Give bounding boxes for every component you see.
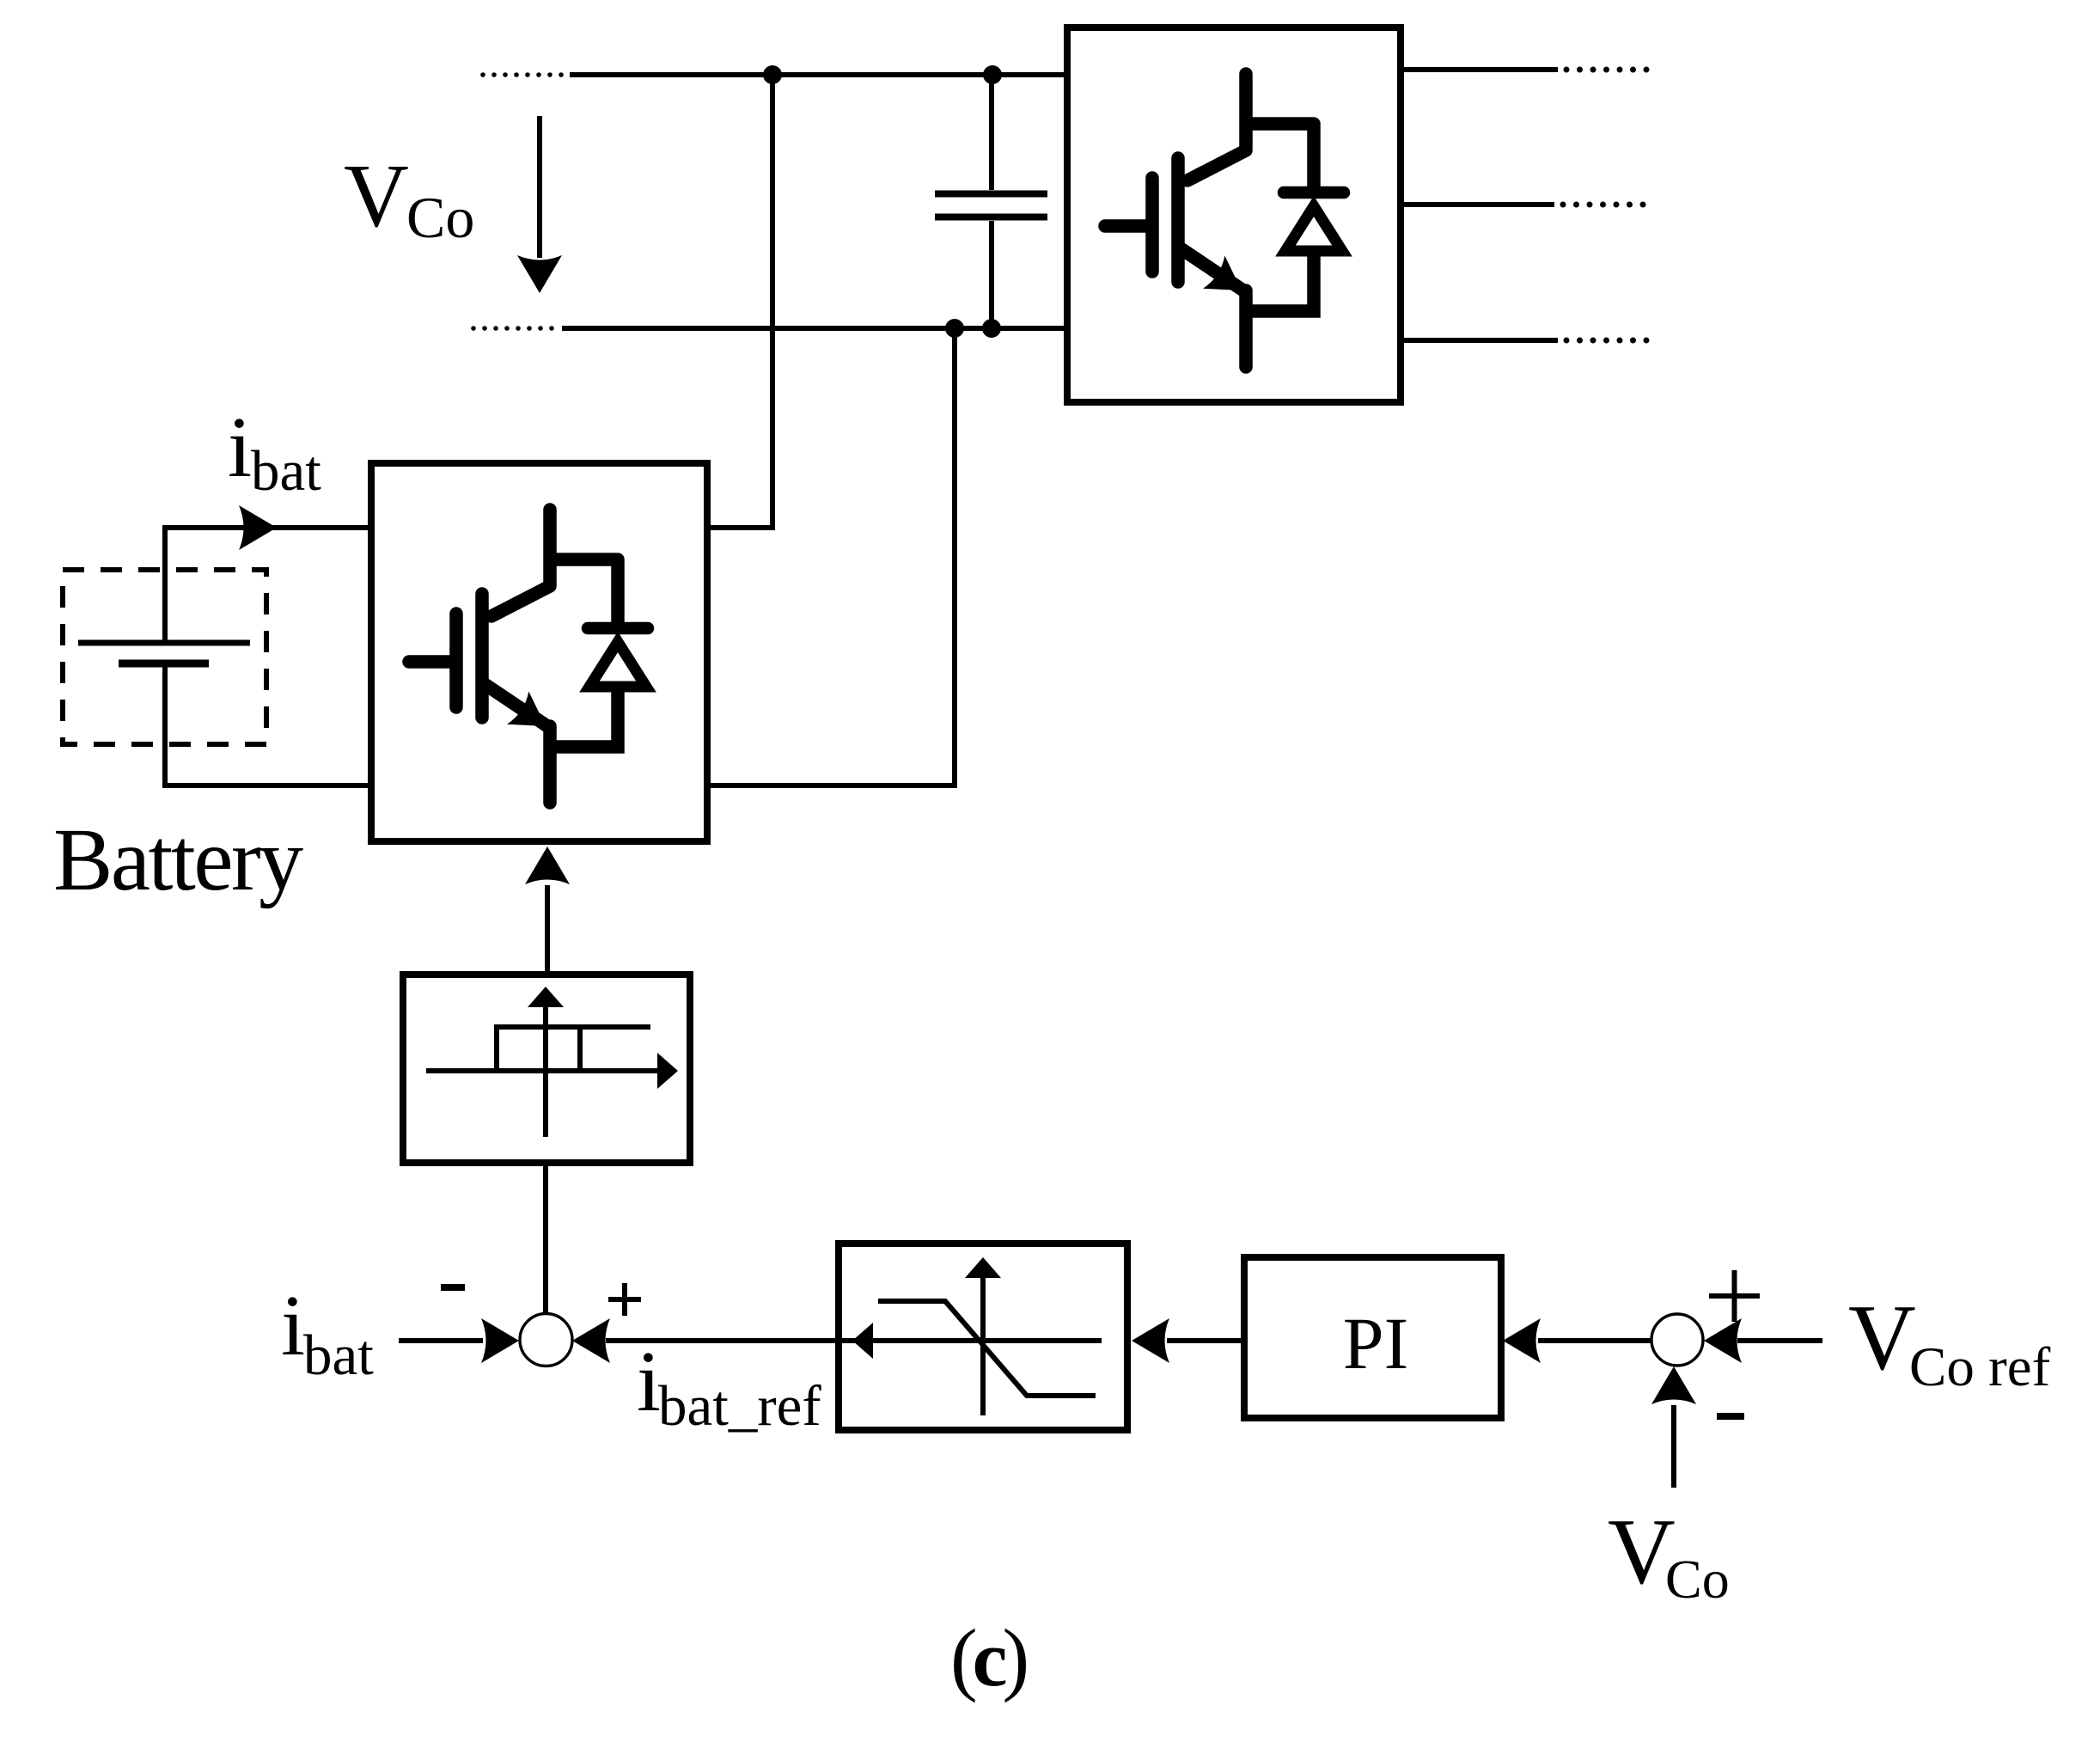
- svg-text:bat_ref: bat_ref: [658, 1374, 821, 1438]
- battery long plate: [78, 640, 250, 646]
- junction dot bottom bus at capacitor: [982, 319, 1001, 338]
- i_bat arrowhead: [239, 505, 277, 550]
- svg-text:i: i: [228, 399, 252, 495]
- saturation graph left arrowhead: [852, 1323, 873, 1359]
- svg-text:V: V: [344, 145, 409, 246]
- svg-text:PI: PI: [1343, 1302, 1408, 1384]
- hysteresis relay curve: [497, 1027, 650, 1071]
- junction dot top bus at capacitor: [983, 65, 1002, 84]
- bottom DC bus dotted end: [471, 326, 554, 331]
- i_bat input arrowhead: [481, 1318, 519, 1363]
- IGBT Q1 with diode D1 (battery converter): [409, 510, 648, 803]
- AC output line a: [1401, 67, 1558, 72]
- wire: converter top output riser to top bus: [707, 75, 772, 528]
- top DC bus dotted end: [480, 72, 564, 77]
- i_bat input wire: [399, 1338, 483, 1343]
- hysteresis graph vertical axis: [543, 1005, 548, 1137]
- arrowhead into PI: [1503, 1318, 1541, 1363]
- capacitor Co plates: [935, 191, 1047, 198]
- svg-text:Co: Co: [406, 185, 474, 250]
- minus sign at S2: [1717, 1413, 1744, 1420]
- V_Co arrow: [537, 116, 542, 258]
- minus sign at S1: [441, 1284, 465, 1291]
- control arrow into converter U1: [545, 885, 550, 975]
- battery short plate: [119, 660, 209, 668]
- svg-text:Co ref: Co ref: [1909, 1336, 2051, 1398]
- hysteresis graph horizontal axis: [426, 1068, 659, 1073]
- AC output line b dotted end: [1560, 202, 1646, 208]
- arrowhead into S1 from right: [572, 1318, 610, 1363]
- inverter module box U2: [1067, 28, 1401, 402]
- svg-text:bat: bat: [303, 1323, 374, 1387]
- svg-text:bat: bat: [251, 439, 321, 503]
- battery dashed box: [63, 570, 266, 744]
- junction dot top bus at riser: [763, 65, 782, 84]
- AC output line a dotted end: [1564, 67, 1650, 73]
- wire saturation block to S1: [606, 1338, 1102, 1343]
- AC output line c: [1401, 338, 1558, 343]
- battery bottom wire: [165, 663, 370, 785]
- capacitor Co top riser: [989, 75, 994, 190]
- capacitor Co bottom riser: [989, 221, 994, 328]
- saturation graph vertical axis: [980, 1276, 986, 1415]
- hysteresis controller box: [403, 975, 690, 1163]
- AC output line c dotted end: [1564, 338, 1650, 344]
- V_Co ref input wire: [1737, 1338, 1822, 1343]
- AC output line b: [1401, 202, 1554, 207]
- plus sign at S2: [1709, 1270, 1760, 1322]
- wire hysteresis to summing junction: [543, 1163, 548, 1313]
- svg-text:i: i: [637, 1333, 661, 1429]
- battery top wire: [165, 528, 370, 643]
- svg-text:(c): (c): [950, 1612, 1026, 1703]
- saturation curve: [878, 1301, 1096, 1396]
- svg-text:i: i: [281, 1277, 305, 1373]
- saturation block box: [839, 1244, 1127, 1430]
- bottom DC bus wire: [562, 326, 1067, 331]
- svg-text:V: V: [1848, 1286, 1916, 1390]
- plus sign at S1: [608, 1283, 641, 1316]
- junction dot bottom bus at riser: [945, 319, 964, 338]
- summing junction S2: [1651, 1314, 1703, 1366]
- svg-text:Co: Co: [1665, 1549, 1730, 1610]
- arrowhead into S2 from right: [1704, 1318, 1742, 1363]
- V_Co feedback arrow: [1671, 1405, 1676, 1488]
- wire S2 to PI: [1538, 1338, 1651, 1343]
- top DC bus wire: [570, 72, 1067, 77]
- summing junction S1: [520, 1314, 572, 1366]
- wire: converter bottom output riser to bottom bus: [707, 328, 955, 785]
- arrow PI to saturation block: [1167, 1338, 1243, 1343]
- IGBT Q2 with diode D2 (inverter): [1105, 74, 1344, 367]
- battery converter module box U1: [371, 463, 707, 841]
- svg-text:Battery: Battery: [53, 810, 303, 909]
- PI box: [1244, 1257, 1501, 1418]
